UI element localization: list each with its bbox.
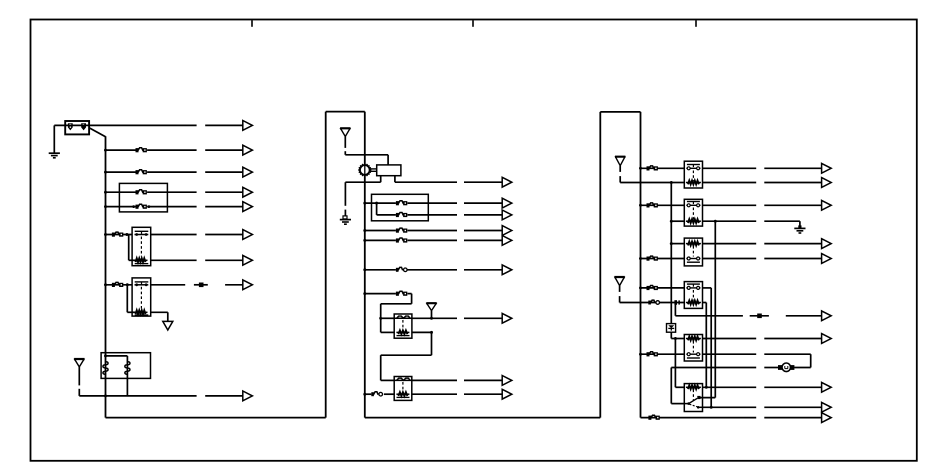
border tick 2 [472,20,474,27]
wire K10 coil in [675,386,684,388]
connector arrow K4 coil row [502,389,512,399]
node junction K9 coil [674,337,677,340]
wire R4 ground drop [799,221,801,227]
fuse FR6 [648,415,659,420]
ground GND2 [340,220,351,225]
wire MD c [464,230,502,232]
feeder wire VL2 [674,339,676,388]
antenna A3 [426,303,436,310]
connector arrow K3 row [502,313,512,323]
relay K10 dashed actuator [692,390,694,402]
relay K2 bottom bar [135,314,149,316]
node junction MB branch [375,202,378,205]
wire battery to bus diagonal [89,128,105,137]
fuse F3 row [136,190,147,195]
wire row MC a [377,214,396,216]
wire K2 coil drop [167,312,169,321]
wire K4 feed drop [380,355,382,380]
wire K2 splice segment [194,284,208,286]
wire left chain bottom [106,417,326,419]
wire R2 c [764,182,821,184]
coil T1 secondary [125,362,130,375]
wire A1 row [79,395,196,397]
wire R3 a [641,204,685,206]
wire K4 coil feed [365,393,372,395]
wire K1 feed [106,234,133,236]
fuse FM2 [396,213,407,218]
border tick 1 [251,20,253,27]
node junction K3 coil out [430,331,433,334]
wire row MG a [365,293,396,295]
wire A2 drop [387,155,389,165]
fuse F4 flank dot a [132,205,135,208]
connector arrow K1 coil [243,255,253,265]
wire K1 coil arrow line [205,259,243,261]
feeder wire VL [670,183,672,324]
fuse F5 [112,232,123,237]
wire R11 a [641,353,685,355]
relay K1 top bar [135,231,149,234]
wire F1 row a [106,149,136,151]
wire F3 row a [106,191,136,193]
connector arrow MA [502,177,512,187]
left bus wire [105,136,107,417]
relay K10 coil [686,385,701,389]
relay K8 dashed actuator [692,290,694,301]
wire R7 a [641,287,685,289]
relay K4 box [394,377,412,401]
wire U1 stub right [394,176,396,183]
lamp LP1 [778,363,794,372]
wire K10 out [703,406,757,408]
node junction R11 [639,353,642,356]
wire K3 contact in [381,317,395,319]
control unit U1 [377,165,401,176]
coil T1 primary [103,362,108,375]
wire MF a [365,269,396,271]
connector arrow R3 [822,200,832,210]
node junction F4 row [104,205,107,208]
wire row1 right [205,124,243,126]
wire R16 c [764,417,821,419]
antenna A5 stem lower [619,296,621,302]
wire K1 contact arrow line [205,234,243,236]
wire K8 coil out [703,302,707,304]
wire row MB a [365,202,396,204]
diode D1 box [667,324,676,333]
wire K4 contact in [381,379,395,381]
wire U1 ground drop lower [344,210,346,216]
wire K2 feed [106,284,133,286]
relay K9 box [684,335,702,362]
ground GND1 [49,153,60,158]
wire MF c [464,269,502,271]
wire R12 c [764,386,821,388]
wire K10 contact in [671,403,684,405]
relay K5 top bar [687,165,700,168]
wire K4 coil out [412,393,457,395]
antenna A4 [615,157,625,166]
relay K1 box [132,227,151,265]
relay K10 contact arm [685,398,703,408]
wire lamp row left [671,367,756,369]
connector arrow F4 row [243,202,253,212]
wire MD b [408,230,458,232]
node junction K4 coil [363,393,366,396]
connector arrow bottom left [243,391,253,401]
relay K8 coil [686,301,701,305]
wire ME a [365,239,396,241]
relay K4 bottom bar [397,396,410,398]
wire A4 run [620,182,671,184]
connector arrow MD [502,226,512,236]
wire A2 right [345,154,388,156]
battery B1 terminal 2 [81,123,86,130]
fuse F2 row [136,170,147,175]
node junction K1 branch [125,233,128,236]
wire K5 coil out [703,182,757,184]
wire K9 contact out [703,353,757,355]
wire lamp drop [810,354,812,367]
antenna A5 [614,277,624,286]
splice dot K2 row [199,283,204,288]
diode D1 [668,325,674,330]
node junction ME [363,239,366,242]
node junction R3 [639,204,642,207]
wire U1 ground run [345,181,380,183]
connector arrow MF [502,265,512,275]
node junction K5 coil [670,181,673,184]
relay K8 contacts [686,286,700,289]
right frame top [600,111,640,113]
wire F4 row b [147,206,197,208]
connector arrow ME [502,236,512,246]
wire K6 coil out [702,220,756,222]
wire F4 row a [106,206,136,208]
antenna A4 stem lower [619,176,621,182]
connector arrow MB [502,198,512,208]
wire R11 c [764,353,810,355]
relay K3 coil [396,330,409,334]
relay K6 contacts [686,204,700,207]
relay K2 dashed actuator [140,287,142,309]
antenna A1 [74,359,84,367]
wire lamp lead left [764,367,778,369]
relay K7 coil [686,242,701,246]
relay K1 contact dots [135,233,149,236]
fuse FR4 [647,286,658,291]
middle frame left [325,112,327,418]
node junction R7 [639,286,642,289]
connector arrow R2 [822,178,832,188]
relay K3 dashed actuator [402,320,404,331]
motor M1 [358,163,371,176]
battery B1 [65,121,89,134]
wire MG drop 2 [380,304,382,333]
node junction V1 top [714,220,717,223]
wire K7 coil out [702,243,756,245]
wire U1 stub left [380,176,382,183]
ground GND2 block [343,216,347,219]
fuse F4 flank dot b [148,205,151,208]
relay K9 bottom bar [687,357,700,359]
switch MF [396,267,407,271]
wire K5 coil in [671,182,684,184]
connector arrow R1 [822,163,832,173]
wire MD a [365,230,396,232]
fuse box FB1 [119,183,167,212]
node junction A3 [430,317,433,320]
ground GND3 [794,225,805,233]
fuse FR5 [647,352,658,357]
wire R6 c [764,258,821,260]
wire K2 contact arrow line [225,284,243,286]
wire K3 contact out [412,317,457,319]
connector arrow K2 contact [243,280,253,290]
connector arrow R6 [822,254,832,264]
relay K1 dashed actuator [140,237,142,257]
relay K7 contacts [686,257,700,260]
right bus wire [640,112,642,418]
wire K3 coil out [412,331,432,333]
relay K8 top bar [687,284,700,287]
wire row MB c [464,202,502,204]
switch SR1 [648,300,659,304]
wire T1 secondary drop [126,356,128,396]
wire R1 c [764,167,821,169]
wire row MC b [408,214,458,216]
node junction MB [363,202,366,205]
relay K3 contact [394,316,412,318]
wire row MC c [464,214,502,216]
connector arrow R10 [822,334,832,344]
fuse MD [396,228,407,233]
fuse F4 row [136,204,147,209]
fuse FM1 [396,201,407,206]
wire F2 row c [205,171,243,173]
relay K2 contact dots [135,283,149,286]
relay K6 coil [686,219,701,223]
wire F3 row c [205,191,243,193]
relay K4 coil [396,392,409,396]
node junction K7 coil in [670,242,673,245]
wire M1 link a [370,168,377,170]
wire row MA a [395,181,457,183]
connector arrow R12 [822,382,832,392]
wire U1 ground drop [344,182,346,206]
wire M1 link b [370,170,377,172]
relay K3 bottom bar [397,335,410,337]
relay K5 coil [686,181,701,185]
connector arrow R16 [822,413,832,423]
node junction R1 [639,167,642,170]
node junction R6 [639,257,642,260]
relay K9 dashed actuator [692,341,694,353]
feeder wire V2 [710,288,712,407]
wire K1 contact out [151,234,197,236]
wire K1 coil in [129,259,135,261]
wire K3 row b [464,317,502,319]
wire R9 branch [674,303,676,316]
wire T1 link [106,355,128,357]
relay K10 box [684,384,702,412]
antenna A5 stem [619,286,621,292]
wire K7 coil in [671,243,684,245]
relay K1 bottom bar [135,263,149,265]
fuse ME [396,238,407,243]
connector arrow F1 row [243,145,253,155]
wire K3 coil drop [431,332,433,355]
connector arrow F3 row [243,187,253,197]
wire ME c [464,239,502,241]
wire R9 splice segment [750,315,769,317]
node junction T1 top [104,354,107,357]
antenna A2 stem lower [344,151,346,155]
coil box T1 [101,353,150,379]
wire R16 a [641,417,757,419]
connector arrow R15 [822,402,832,412]
wire R1 a [641,167,685,169]
wire R15 c [764,406,821,408]
connector arrow R9 [822,311,832,321]
relay K2 top bar [135,282,149,285]
node junction MG [363,292,366,295]
wire K6 coil in [671,220,684,222]
wire row MA b [464,181,502,183]
node junction MF [363,268,366,271]
border tick 3 [695,20,697,27]
wire F1 row c [205,149,243,151]
relay K10 throw square [697,396,700,399]
node junction MD [363,229,366,232]
node junction F2 row [104,171,107,174]
connector arrow K1 contact [243,230,253,240]
wire row MG b [408,293,412,295]
wire R5 c [764,243,821,245]
battery B1 terminal 1 [68,123,73,130]
wire K5 contact out [703,167,757,169]
antenna A1 stem [78,367,80,386]
relay K3 box [394,314,412,338]
middle frame top [326,111,365,113]
node junction F1 row [104,149,107,152]
middle bus wire [364,112,366,418]
wire bottom row arrow line [205,395,243,397]
antenna A2 [340,128,350,136]
node junction V2 end [710,406,713,409]
relay K4 contact [394,378,412,380]
fuse F1 row [136,148,147,153]
wire F1 row b [147,149,197,151]
wire ground drop [53,125,55,152]
wire K4 contact out [412,379,457,381]
ground triangle GT1 [163,321,173,330]
node junction K2 feed [104,283,107,286]
relay K8 box [684,282,702,309]
wire K2 branch down [126,285,128,313]
relay K9 coil [686,337,701,341]
wire battery through [54,124,89,126]
wire row MB b [408,202,458,204]
wire K4 coil row b [464,393,502,395]
middle chain bottom [365,417,601,419]
relay K7 dashed actuator [692,246,694,257]
wire K3 coil in [381,331,395,333]
wire K7 contact out [702,258,756,260]
antenna A1 stem lower [78,389,80,396]
wire row1 left [89,124,197,126]
wire MB-MC branch [376,203,378,215]
wire K1 branch down [128,235,130,261]
relay K6 box [684,199,702,226]
relay K2 box [132,278,151,316]
feeder wire V1 [714,221,716,397]
relay K5 box [684,161,702,188]
relay K1 coil [134,258,148,262]
wire MG run left [381,303,412,305]
connector arrow F2 row [243,167,253,177]
wire MF b [408,269,458,271]
node junction F3 row [104,191,107,194]
wire F2 row b [147,171,197,173]
node junction K3 in [379,317,382,320]
wire K2 coil in [127,311,135,313]
feeder wire V3 [705,303,707,388]
wire K9 coil in [671,338,684,340]
wire R10 c [764,338,821,340]
relay K7 bottom bar [687,261,700,263]
node junction K6 coil in [670,220,673,223]
wire F4 row c [205,206,243,208]
antenna A3 stem [431,311,433,319]
connector arrow R5 [822,239,832,249]
relay K4 dashed actuator [402,382,404,392]
wire R4 c [764,220,800,222]
fuse FR3 [647,256,658,261]
fuse FM6 [396,291,407,296]
node junction V3 end [705,386,708,389]
switch S2 [371,392,382,396]
wire R3 c [764,204,821,206]
wire R6 a [641,258,685,260]
relay K5 contacts [686,167,700,170]
relay K5 dashed actuator [692,171,694,182]
wire K4 coil in [384,393,394,395]
fuse box FB2 [372,194,429,221]
fuse F6 [112,282,123,287]
connector arrow K4 row [502,376,512,386]
wire R8 a [620,302,685,304]
wire K2 contact out [151,284,186,286]
connector arrow MC [502,210,512,220]
relay K2 coil [134,310,148,314]
wire K10 stub [699,397,715,399]
wire K9 coil out [703,338,757,340]
antenna A2 stem [344,137,346,148]
wire lamp lead right [794,367,811,369]
fuse FR2 [647,203,658,208]
relay K6 dashed actuator [692,208,694,220]
wire ME b [408,239,458,241]
wire K10 contact feed drop [670,368,672,404]
antenna A4 stem [619,166,621,172]
wire K10 coil out [703,386,757,388]
splice dot R9 [757,314,762,319]
connector arrow CA1 [243,121,253,131]
node junction A1 bus [104,394,107,397]
relay K9 contacts [686,353,700,356]
wire K4 row b [464,379,502,381]
